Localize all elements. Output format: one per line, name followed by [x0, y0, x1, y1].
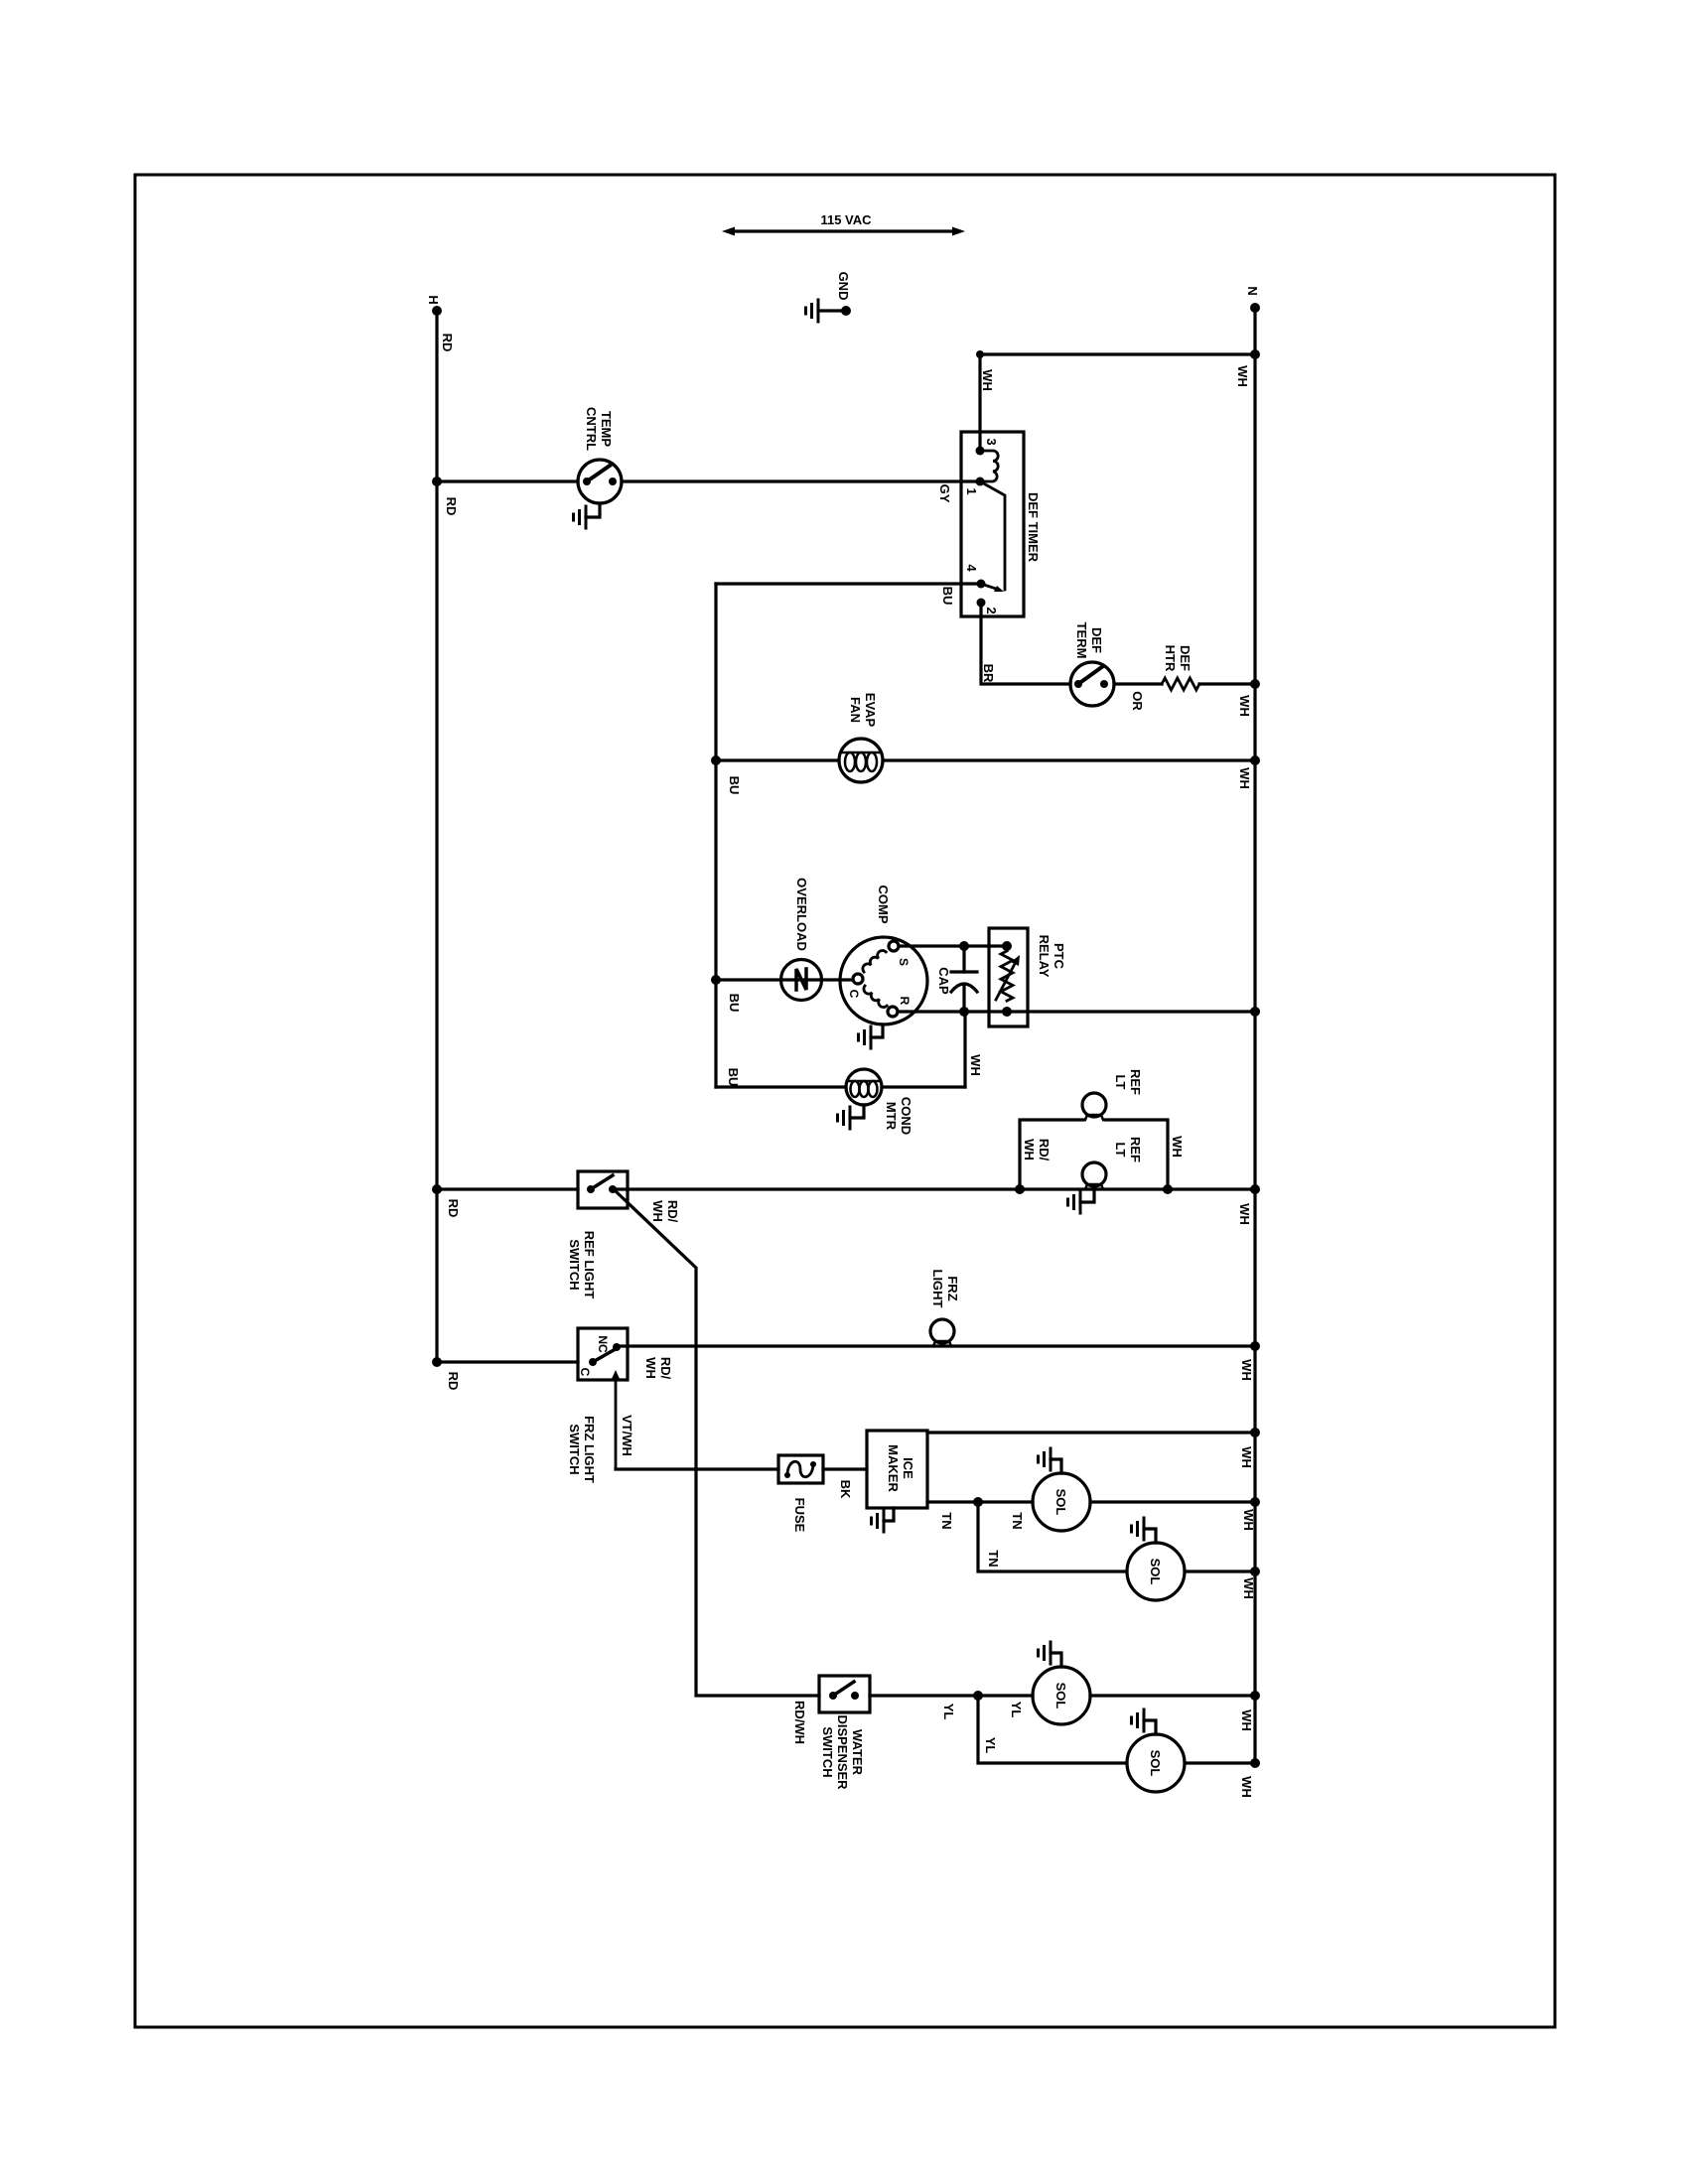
svg-text:YL: YL	[983, 1737, 998, 1754]
run capacitor CAP	[951, 946, 977, 1012]
svg-text:EVAPFAN: EVAPFAN	[848, 693, 878, 728]
svg-text:WH: WH	[980, 369, 995, 391]
svg-text:CAP: CAP	[936, 967, 951, 995]
ground (COMP)	[859, 1024, 884, 1048]
solenoid SOL 2	[1127, 1543, 1185, 1600]
svg-text:C: C	[847, 990, 861, 999]
svg-text:R: R	[898, 997, 912, 1006]
wire RD from H rail to FRZ LIGHT SWITCH	[432, 1357, 578, 1367]
ice maker ICE MAKER box	[867, 1431, 927, 1508]
wire TN branch to SOL 2	[978, 1502, 1127, 1571]
svg-text:BU: BU	[940, 587, 955, 606]
svg-text:3: 3	[984, 438, 999, 445]
ground (COND MTR)	[838, 1105, 865, 1129]
wire WH from SOL 4 to N rail	[1185, 1758, 1260, 1768]
svg-text:WH: WH	[1237, 1203, 1252, 1225]
svg-text:RD/WH: RD/WH	[792, 1701, 807, 1744]
PTC relay box PTC RELAY	[989, 928, 1028, 1026]
svg-text:C: C	[578, 1368, 592, 1377]
wire BK from FUSE to ICE MAKER	[823, 1467, 867, 1470]
ground (REF LT)	[1068, 1189, 1095, 1213]
def timer motor coil	[980, 451, 998, 481]
svg-text:RD/WH: RD/WH	[643, 1357, 673, 1380]
svg-text:TN: TN	[1010, 1512, 1025, 1529]
svg-text:GY: GY	[937, 484, 952, 503]
wire WH from COMP R terminal to N rail	[898, 1007, 1260, 1017]
svg-text:WH: WH	[1237, 767, 1252, 789]
compressor COMP	[840, 937, 927, 1024]
solenoid SOL 1	[1033, 1473, 1090, 1531]
svg-text:2: 2	[984, 607, 999, 614]
svg-text:SOL: SOL	[1053, 1683, 1068, 1709]
svg-text:DEFTERM: DEFTERM	[1074, 622, 1104, 659]
svg-text:4: 4	[964, 564, 979, 572]
wire RD/WH from FRZ LIGHT SWITCH NC to FRZ LIGHT	[617, 1341, 1260, 1351]
wire WH from ICE MAKER top to N rail	[927, 1428, 1260, 1437]
def timer pin 2	[977, 599, 986, 608]
wire BU from branch rail to COND MTR	[716, 1085, 846, 1088]
wire N rail (WH)	[1253, 308, 1256, 1763]
wire BU from branch rail to EVAP FAN	[711, 755, 839, 765]
svg-text:OVERLOAD: OVERLOAD	[794, 878, 809, 951]
svg-text:WH: WH	[1239, 1446, 1254, 1468]
wire RD/WH diagonal from REF LIGHT SWITCH down	[616, 1191, 819, 1696]
ground (SOL 1)	[1039, 1448, 1062, 1473]
svg-text:DEF TIMER: DEF TIMER	[1026, 492, 1041, 563]
wire TN from ICE MAKER to SOL 1	[927, 1497, 1033, 1507]
water dispenser switch WATER DISPENSER SWITCH	[819, 1676, 870, 1712]
evaporator fan motor EVAP FAN	[839, 739, 883, 782]
defrost terminator DEF TERM	[1070, 662, 1114, 706]
wire WH from EVAP FAN to N rail	[883, 755, 1260, 765]
wire OR from DEF TERM to DEF HTR	[1114, 682, 1162, 685]
freezer light switch FRZ LIGHT SWITCH	[578, 1328, 628, 1469]
ground (TEMP CNTRL)	[574, 503, 601, 528]
def timer switch arm	[980, 481, 1005, 590]
overload protector OVERLOAD	[781, 960, 822, 1001]
solenoid SOL 3	[1033, 1667, 1090, 1724]
def timer pin 3	[976, 447, 985, 456]
svg-text:WH: WH	[1235, 365, 1250, 387]
wire to compressor common	[821, 978, 853, 981]
wire YL branch to SOL 4	[978, 1696, 1127, 1763]
node H (hot terminal)	[432, 306, 442, 316]
svg-text:RD: RD	[446, 1372, 461, 1391]
115 VAC span arrow	[722, 227, 965, 236]
svg-text:FUSE: FUSE	[792, 1498, 807, 1533]
svg-text:RD/WH: RD/WH	[1022, 1139, 1052, 1161]
refrigerator light switch REF LIGHT SWITCH	[578, 1171, 628, 1208]
svg-text:TEMPCNTRL: TEMPCNTRL	[584, 407, 614, 451]
svg-text:BU: BU	[726, 1068, 741, 1087]
ground (ICE MAKER)	[872, 1508, 895, 1532]
svg-text:H: H	[426, 295, 441, 304]
svg-text:WH: WH	[1239, 1709, 1254, 1731]
wire WH from R junction down to COND MTR	[963, 1012, 966, 1087]
ground GND	[806, 300, 852, 322]
condenser motor COND MTR	[846, 1069, 965, 1105]
svg-text:CONDMTR: CONDMTR	[884, 1097, 913, 1135]
wire RD from H rail to TEMP CNTRL	[432, 477, 578, 486]
svg-text:WH: WH	[968, 1054, 983, 1076]
fuse FUSE	[778, 1455, 823, 1483]
defrost timer DEF TIMER box	[961, 432, 1024, 616]
svg-text:S: S	[897, 958, 911, 966]
ground (SOL 3)	[1039, 1642, 1062, 1667]
wire WH from SOL 2 to N rail	[1185, 1567, 1260, 1576]
svg-text:OR: OR	[1130, 691, 1145, 711]
node N (neutral terminal)	[1250, 303, 1260, 313]
wire YL from WATER DISPENSER SWITCH to SOL 3	[870, 1691, 1033, 1701]
wire WH from DEF HTR to N rail	[1199, 679, 1260, 689]
svg-text:1: 1	[964, 487, 979, 494]
svg-text:RD: RD	[444, 497, 459, 516]
svg-text:REF LIGHTSWITCH: REF LIGHTSWITCH	[567, 1231, 597, 1299]
wire WH from SOL 3 to N rail	[1090, 1691, 1260, 1701]
svg-text:WH: WH	[1241, 1509, 1256, 1531]
svg-text:RD: RD	[446, 1199, 461, 1218]
svg-text:WH: WH	[1237, 695, 1252, 717]
wire BU from branch rail to OVERLOAD	[711, 975, 781, 985]
wire WH from DEF TIMER pin 3 to N rail	[976, 349, 1260, 451]
refrigerator lamp REF LT (bottom)	[1082, 1162, 1106, 1189]
svg-text:NC: NC	[596, 1335, 610, 1353]
svg-text:SOL: SOL	[1148, 1750, 1163, 1777]
svg-text:WH: WH	[1170, 1136, 1185, 1158]
def timer pin 4	[977, 580, 986, 589]
svg-text:SOL: SOL	[1148, 1559, 1163, 1585]
ground (SOL 2)	[1132, 1518, 1157, 1543]
svg-text:RD/WH: RD/WH	[650, 1200, 680, 1223]
svg-text:BR: BR	[981, 664, 996, 683]
wire GY from TEMP CNTRL to DEF TIMER pin 1	[622, 479, 980, 482]
wire WH from SOL 1 to N rail	[1090, 1497, 1260, 1507]
ground (SOL 4)	[1132, 1709, 1157, 1734]
svg-text:DEFHTR: DEFHTR	[1163, 645, 1193, 672]
svg-text:BK: BK	[838, 1480, 853, 1499]
svg-text:BU: BU	[727, 776, 742, 795]
wire BR from DEF TIMER pin 2 to DEF TERM	[981, 603, 1070, 684]
svg-text:WH: WH	[1239, 1359, 1254, 1381]
refrigerator lamp REF LT (top)	[1082, 1093, 1106, 1120]
svg-text:TN: TN	[986, 1550, 1001, 1567]
wire RD from H rail to REF LIGHT SWITCH	[432, 1184, 578, 1194]
svg-text:GND: GND	[836, 272, 851, 301]
svg-text:COMP: COMP	[876, 886, 891, 924]
freezer lamp FRZ LIGHT	[930, 1319, 954, 1346]
wire from COMP S terminal to PTC RELAY	[899, 941, 1012, 951]
def timer pin 4 contact arrow	[981, 584, 1004, 592]
svg-text:115 VAC: 115 VAC	[820, 212, 872, 227]
svg-text:TN: TN	[939, 1512, 954, 1529]
wire RD/WH branch up to REF LT top lamp	[1020, 1120, 1083, 1189]
svg-text:RD: RD	[440, 334, 455, 352]
svg-text:YL: YL	[941, 1704, 956, 1720]
wire BU from DEF TIMER pin 4 to BU branch rail	[716, 582, 980, 585]
svg-text:WH: WH	[1241, 1577, 1256, 1599]
svg-text:SOL: SOL	[1053, 1489, 1068, 1516]
wire H rail (RD)	[435, 311, 438, 1362]
defrost heater DEF HTR resistor	[1162, 678, 1199, 690]
def timer pin 1	[976, 478, 985, 486]
svg-text:YL: YL	[1009, 1702, 1024, 1718]
wire BU branch rail	[714, 584, 717, 1087]
wire VT/WH from FRZ LIGHT SWITCH C to FUSE	[616, 1467, 778, 1470]
thermostat TEMP CNTRL	[578, 460, 622, 503]
svg-text:FRZ LIGHTSWITCH: FRZ LIGHTSWITCH	[567, 1416, 597, 1483]
svg-text:BU: BU	[727, 994, 742, 1013]
svg-text:WH: WH	[1239, 1776, 1254, 1798]
wire RD/WH from REF LIGHT SWITCH to REF LT lamps	[613, 1184, 1260, 1194]
solenoid SOL 4	[1127, 1734, 1185, 1792]
wire WH from top lamp to bottom row	[1105, 1120, 1173, 1194]
svg-text:VT/WH: VT/WH	[620, 1415, 634, 1456]
svg-text:N: N	[1245, 286, 1260, 295]
